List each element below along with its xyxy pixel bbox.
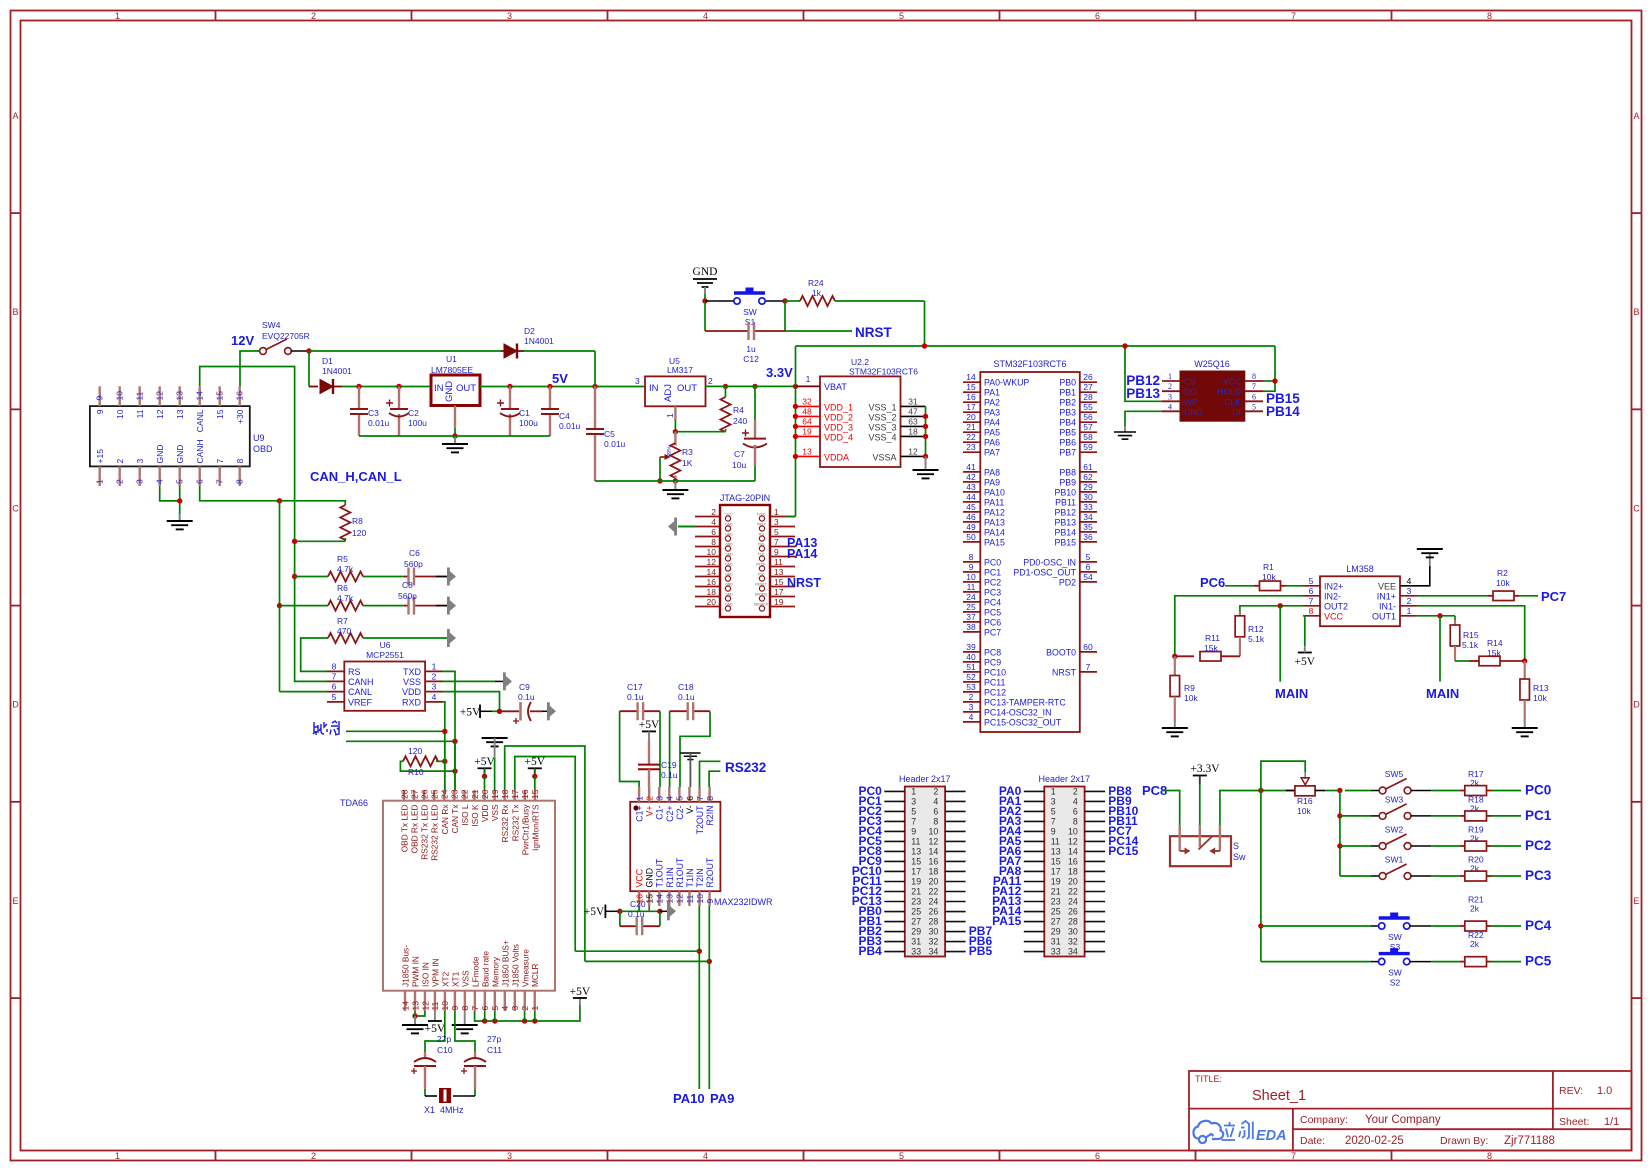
svg-text:2: 2	[969, 692, 974, 702]
svg-text:SW: SW	[743, 307, 757, 317]
svg-text:OBD: OBD	[253, 444, 273, 454]
svg-text:+5V: +5V	[570, 986, 591, 998]
net port (C9)	[547, 702, 556, 720]
junction C7 top	[752, 384, 757, 389]
junction OUT1/MAIN	[1437, 613, 1442, 618]
svg-text:21: 21	[911, 887, 921, 897]
svg-text:ISO IN: ISO IN	[420, 962, 430, 987]
resistor R11 15k	[1175, 655, 1194, 657]
wire OUT1	[1417, 615, 1455, 617]
svg-text:27p: 27p	[487, 1034, 501, 1044]
wire pin23 CAN Tx riser	[454, 741, 456, 790]
svg-text:PD2: PD2	[1059, 577, 1076, 587]
svg-text:XT2: XT2	[440, 971, 450, 987]
junction R6 tap	[277, 603, 282, 608]
svg-text:0.1u: 0.1u	[627, 692, 644, 702]
svg-text:PC15: PC15	[1108, 844, 1138, 858]
svg-text:8: 8	[332, 661, 337, 671]
svg-text:A: A	[12, 111, 18, 121]
svg-text:LM7805EE: LM7805EE	[431, 365, 473, 375]
TDA66 top pins	[399, 789, 540, 860]
junction R11/R9	[1172, 654, 1177, 659]
svg-text:U9: U9	[253, 433, 265, 443]
capacitor C19 0.1u	[648, 741, 650, 765]
svg-text:24: 24	[1068, 897, 1078, 907]
wire 3.3V top rail	[796, 345, 1276, 347]
svg-text:R24: R24	[808, 278, 824, 288]
svg-text:PA15: PA15	[984, 537, 1005, 547]
svg-text:12: 12	[929, 836, 939, 846]
svg-text:39%: 39%	[667, 446, 673, 457]
capacitor C20 0.1u	[619, 911, 621, 926]
svg-text:16: 16	[235, 391, 245, 401]
svg-text:R10: R10	[408, 767, 424, 777]
svg-text:26: 26	[1068, 907, 1078, 917]
svg-text:17: 17	[510, 789, 520, 799]
wire GND pin15 down	[648, 906, 650, 911]
net port (MCP VSS)	[503, 672, 512, 690]
svg-text:RXD: RXD	[402, 697, 422, 707]
svg-text:RS232 Tx LED: RS232 Tx LED	[420, 804, 430, 859]
svg-text:T1OUT: T1OUT	[655, 858, 665, 887]
ground (TDA VSS pin19)	[482, 738, 508, 746]
svg-text:Your Company: Your Company	[1365, 1114, 1441, 1126]
svg-text:DBGRQ: DBGRQ	[755, 593, 768, 597]
resistor R13 10k	[1524, 661, 1526, 679]
svg-text:C7: C7	[734, 449, 745, 459]
junction R2OUT	[707, 959, 712, 964]
title block	[1189, 1071, 1632, 1151]
svg-text:22: 22	[966, 432, 976, 442]
svg-text:PA9: PA9	[710, 1091, 734, 1106]
wire D1 to U1 IN	[342, 386, 431, 388]
svg-text:PB12: PB12	[1054, 507, 1076, 517]
svg-text:36: 36	[1083, 532, 1093, 542]
svg-text:28: 28	[399, 789, 409, 799]
svg-text:VCC: VCC	[725, 513, 733, 517]
svg-text:C2: C2	[408, 408, 419, 418]
svg-text:27: 27	[409, 789, 419, 799]
svg-text:PC4: PC4	[1525, 918, 1552, 933]
svg-text:JTAG-20PIN: JTAG-20PIN	[720, 493, 770, 503]
svg-text:5: 5	[899, 1151, 904, 1161]
svg-text:8: 8	[1309, 606, 1314, 616]
svg-text:29: 29	[911, 927, 921, 937]
capacitor C11 27p	[474, 1052, 476, 1057]
svg-text:+15: +15	[95, 449, 105, 464]
svg-text:D: D	[12, 700, 19, 710]
svg-text:WP: WP	[1184, 397, 1198, 407]
svg-text:Memory: Memory	[490, 956, 500, 987]
svg-text:3: 3	[655, 796, 665, 801]
switch SW2	[1340, 845, 1371, 847]
svg-text:D: D	[1633, 700, 1640, 710]
svg-text:5.1k: 5.1k	[1462, 640, 1479, 650]
svg-text:470: 470	[337, 626, 351, 636]
svg-text:TCK: TCK	[758, 553, 766, 557]
svg-text:12: 12	[707, 557, 717, 567]
switch SW4	[260, 348, 267, 355]
svg-text:X1: X1	[424, 1105, 435, 1115]
svg-text:HOLD: HOLD	[1217, 387, 1241, 397]
wire D2 down to 5V rail	[594, 351, 596, 387]
svg-text:5: 5	[1252, 402, 1256, 411]
svg-text:22: 22	[929, 887, 939, 897]
wire TDA pin18 RS232Rx	[505, 746, 585, 961]
svg-text:14: 14	[400, 1001, 410, 1011]
junction C3 top	[356, 384, 361, 389]
svg-text:6: 6	[711, 527, 716, 537]
svg-text:9: 9	[95, 409, 105, 414]
svg-text:1u: 1u	[746, 344, 756, 354]
wire U5 OUT to VBAT rail	[706, 385, 796, 387]
svg-text:R14: R14	[1487, 638, 1503, 648]
svg-text:Company:: Company:	[1300, 1114, 1348, 1126]
svg-text:SW: SW	[1388, 968, 1402, 978]
ic U? MAX232IDWR	[630, 802, 720, 891]
svg-text:8: 8	[969, 552, 974, 562]
svg-text:8: 8	[711, 537, 716, 547]
svg-text:PC5: PC5	[1525, 954, 1552, 969]
svg-text:4: 4	[155, 479, 165, 484]
svg-text:20: 20	[707, 597, 717, 607]
svg-text:4: 4	[1168, 402, 1172, 411]
capacitor C12 1u	[705, 330, 749, 332]
svg-text:12: 12	[675, 894, 685, 904]
svg-text:R2IN: R2IN	[705, 806, 715, 826]
junction C20 left	[617, 909, 622, 914]
junction switch bus top	[1337, 788, 1342, 793]
svg-text:PC9: PC9	[984, 657, 1001, 667]
svg-text:+5V: +5V	[460, 707, 481, 719]
svg-text:BOOT0: BOOT0	[1046, 647, 1076, 657]
svg-text:VSS_3: VSS_3	[868, 422, 896, 432]
resistor R12 5.1k	[1239, 611, 1241, 616]
svg-text:28: 28	[1083, 392, 1093, 402]
svg-text:R1OUT: R1OUT	[675, 857, 685, 887]
svg-text:C2+: C2+	[665, 806, 675, 822]
svg-text:40: 40	[966, 652, 976, 662]
wire 12V down to D1	[308, 351, 310, 387]
svg-text:5: 5	[774, 527, 779, 537]
svg-text:5V: 5V	[552, 371, 568, 386]
svg-text:3: 3	[507, 1151, 512, 1161]
svg-text:PC6: PC6	[984, 617, 1001, 627]
svg-text:PD1-OSC_OUT: PD1-OSC_OUT	[1013, 567, 1076, 577]
EasyEDA logo	[1194, 1121, 1224, 1143]
svg-text:2: 2	[311, 11, 316, 21]
svg-text:S: S	[1233, 841, 1239, 851]
wire 12V to D2	[309, 350, 501, 352]
svg-text:5: 5	[911, 806, 916, 816]
wire bottom rail C5-C7	[595, 480, 755, 482]
svg-text:C3: C3	[368, 408, 379, 418]
svg-text:14: 14	[195, 391, 205, 401]
svg-text:2: 2	[1073, 786, 1078, 796]
svg-text:C9: C9	[519, 682, 530, 692]
resistor R22 2k	[1431, 961, 1460, 963]
svg-text:J1850 Bus-: J1850 Bus-	[401, 945, 411, 987]
junction W25 VCC	[1272, 378, 1277, 383]
junction R16 left	[1258, 788, 1263, 793]
wire T2IN vertical	[698, 906, 700, 1089]
wire OUT2	[1240, 606, 1303, 611]
ground (MAX232 V-)	[680, 753, 700, 760]
svg-text:E: E	[1633, 896, 1639, 906]
svg-text:IN2+: IN2+	[1324, 581, 1343, 591]
svg-text:PB13: PB13	[1126, 386, 1160, 401]
svg-text:GND: GND	[175, 445, 185, 464]
svg-text:33: 33	[1051, 947, 1061, 957]
svg-text:CANL: CANL	[348, 687, 372, 697]
svg-text:29: 29	[1051, 927, 1061, 937]
svg-text:PB3: PB3	[1059, 408, 1076, 418]
svg-text:C: C	[12, 503, 19, 513]
U2.2 pin VBAT	[796, 385, 821, 387]
svg-text:D2: D2	[524, 326, 535, 336]
svg-text:PB5: PB5	[969, 944, 993, 958]
svg-text:MAIN: MAIN	[1426, 686, 1459, 701]
svg-text:VDD_4: VDD_4	[824, 432, 853, 442]
wire +5V to VCC	[620, 910, 660, 912]
svg-text:4: 4	[703, 1151, 708, 1161]
svg-text:15: 15	[215, 409, 225, 419]
svg-text:9: 9	[969, 562, 974, 572]
svg-text:PC1: PC1	[984, 567, 1001, 577]
svg-text:10k: 10k	[1184, 693, 1198, 703]
svg-text:7: 7	[911, 816, 916, 826]
svg-text:GND: GND	[444, 381, 455, 402]
regulator U1 LM7805EE	[431, 375, 480, 406]
svg-text:R15: R15	[1463, 630, 1479, 640]
svg-text:34: 34	[1083, 512, 1093, 522]
svg-text:16: 16	[1068, 856, 1078, 866]
svg-text:RS232 Rx LED: RS232 Rx LED	[430, 804, 440, 860]
svg-text:C5: C5	[604, 429, 615, 439]
svg-text:PC12: PC12	[984, 687, 1006, 697]
svg-text:22: 22	[460, 789, 470, 799]
svg-text:CANL: CANL	[195, 409, 205, 432]
svg-text:SW3: SW3	[1385, 794, 1404, 804]
svg-text:TDA66: TDA66	[340, 798, 368, 808]
mcu U2.2 STM32F103RCT6 power unit	[820, 376, 901, 467]
svg-text:15k: 15k	[1204, 643, 1218, 653]
svg-text:2: 2	[311, 1151, 316, 1161]
svg-text:PA7: PA7	[984, 448, 1000, 458]
svg-text:2: 2	[933, 786, 938, 796]
junction jumper1	[442, 729, 447, 734]
ground (R3 rail)	[674, 481, 676, 490]
wire R2OUT vertical	[708, 906, 710, 1089]
svg-text:VDDA: VDDA	[824, 452, 849, 462]
svg-text:NRST: NRST	[787, 576, 821, 590]
svg-text:MCP2551: MCP2551	[366, 650, 404, 660]
svg-text:20: 20	[1068, 876, 1078, 886]
svg-text:GND: GND	[725, 553, 733, 557]
svg-text:10k: 10k	[1496, 578, 1510, 588]
svg-text:VDD_2: VDD_2	[824, 412, 853, 422]
svg-text:PC13-TAMPER-RTC: PC13-TAMPER-RTC	[984, 697, 1066, 707]
svg-text:1: 1	[806, 374, 811, 384]
svg-text:U6: U6	[380, 640, 391, 650]
svg-text:PA13: PA13	[984, 517, 1005, 527]
power flag +5V (TDA pin11)	[434, 1011, 436, 1021]
svg-text:2k: 2k	[1470, 778, 1480, 788]
svg-text:A: A	[1633, 111, 1639, 121]
svg-text:4: 4	[665, 796, 675, 801]
wire NRST stub	[785, 330, 852, 332]
potentiometer R16 10k	[1286, 790, 1295, 792]
svg-text:PC3: PC3	[1525, 868, 1552, 883]
junction 3.3V W25	[1122, 343, 1127, 348]
svg-text:SW1: SW1	[1385, 855, 1404, 865]
svg-text:PwrCtr1/Busy: PwrCtr1/Busy	[520, 804, 530, 856]
svg-text:6: 6	[1086, 562, 1091, 572]
svg-text:R3: R3	[682, 447, 693, 457]
svg-text:PA0-WKUP: PA0-WKUP	[984, 378, 1029, 388]
svg-text:PA5: PA5	[984, 428, 1000, 438]
svg-text:13: 13	[802, 446, 812, 456]
junction jumper2	[452, 739, 457, 744]
wire JTAG pin1 to 3.3V	[785, 516, 796, 518]
svg-text:PC6: PC6	[1200, 575, 1225, 590]
svg-text:51: 51	[966, 662, 976, 672]
junction S1 right	[782, 298, 787, 303]
svg-text:C8: C8	[402, 580, 413, 590]
svg-text:8: 8	[1487, 1151, 1492, 1161]
svg-text:63: 63	[908, 416, 918, 426]
svg-text:47: 47	[908, 406, 918, 416]
svg-text:62: 62	[1083, 472, 1093, 482]
switch SW3	[1340, 815, 1371, 817]
svg-text:49: 49	[966, 522, 976, 532]
net port (JTAG pin4)	[668, 518, 677, 536]
svg-text:0.1u: 0.1u	[518, 692, 535, 702]
junction CANH branch	[277, 498, 282, 503]
svg-text:GND: GND	[725, 523, 733, 527]
wire XT1 to C11	[455, 1011, 475, 1052]
svg-text:3: 3	[1051, 796, 1056, 806]
svg-text:45: 45	[966, 502, 976, 512]
svg-text:11: 11	[135, 391, 145, 400]
svg-text:5: 5	[675, 796, 685, 801]
wire W25Q16 VCC	[1263, 346, 1275, 391]
svg-text:C1: C1	[519, 408, 530, 418]
svg-text:C18: C18	[678, 682, 694, 692]
svg-text:10k: 10k	[1533, 693, 1547, 703]
svg-text:26: 26	[929, 907, 939, 917]
svg-text:11: 11	[685, 894, 695, 903]
capacitor C17 0.1u	[620, 711, 640, 787]
svg-text:+5V: +5V	[639, 719, 660, 731]
connector U9 OBD body	[90, 406, 250, 466]
svg-text:PA14: PA14	[787, 547, 817, 561]
svg-text:VEE: VEE	[1378, 581, 1396, 591]
mcu STM32F103RCT6 GPIO unit	[980, 372, 1080, 732]
svg-text:19: 19	[1051, 876, 1061, 886]
resistor R1 10k	[1225, 585, 1254, 587]
resistor R8 120	[340, 505, 350, 540]
svg-text:MAIN: MAIN	[1275, 686, 1308, 701]
ground (U1)	[454, 436, 456, 444]
wire IN2- left	[1175, 596, 1303, 657]
svg-text:PC0: PC0	[984, 557, 1001, 567]
ground (TDA VSS pin8)	[464, 1011, 466, 1025]
svg-text:7: 7	[1086, 662, 1091, 672]
svg-text:C11: C11	[487, 1045, 502, 1055]
svg-text:26: 26	[1083, 372, 1093, 382]
svg-text:6: 6	[685, 796, 695, 801]
svg-text:27: 27	[1083, 382, 1093, 392]
wire TXD down	[443, 671, 456, 790]
svg-text:7: 7	[1309, 596, 1314, 606]
svg-text:20: 20	[929, 876, 939, 886]
svg-text:IN1+: IN1+	[1377, 591, 1396, 601]
junction R24/3.3V	[922, 343, 927, 348]
svg-text:TDO: TDO	[757, 573, 765, 577]
svg-text:1: 1	[774, 507, 779, 517]
svg-text:34: 34	[1068, 947, 1078, 957]
svg-text:0.1u: 0.1u	[628, 909, 645, 919]
svg-text:2020-02-25: 2020-02-25	[1345, 1135, 1404, 1147]
resistor R20 2k	[1431, 875, 1460, 877]
svg-text:B: B	[1633, 307, 1639, 317]
svg-text:14: 14	[707, 567, 717, 577]
resistor R17 2k	[1431, 790, 1460, 792]
svg-text:61: 61	[1083, 462, 1093, 472]
svg-text:RS232 Tx: RS232 Tx	[510, 804, 520, 842]
svg-text:PA1: PA1	[984, 388, 1000, 398]
svg-text:PC7: PC7	[984, 627, 1001, 637]
svg-text:7: 7	[215, 479, 225, 484]
svg-text:4.7k: 4.7k	[337, 593, 354, 603]
svg-text:5: 5	[332, 692, 337, 702]
svg-text:11: 11	[135, 409, 145, 418]
svg-text:C6: C6	[409, 548, 420, 558]
svg-text:R2: R2	[1497, 568, 1508, 578]
resistor R18 2k	[1431, 815, 1460, 817]
wire VSS bus	[925, 406, 927, 456]
svg-text:EVQ22705R: EVQ22705R	[262, 331, 310, 341]
svg-text:2: 2	[432, 671, 437, 681]
svg-text:R4: R4	[733, 405, 744, 415]
junction OUT2/MAIN	[1278, 603, 1283, 608]
svg-text:25: 25	[966, 602, 976, 612]
mcu TDA66	[383, 801, 555, 991]
svg-text:IgnMon/RTS: IgnMon/RTS	[530, 804, 540, 851]
svg-text:OBD Rx LED: OBD Rx LED	[410, 804, 420, 853]
svg-text:PB14: PB14	[1266, 404, 1300, 419]
svg-text:8: 8	[460, 1006, 470, 1011]
svg-text:1: 1	[665, 413, 675, 418]
svg-text:3: 3	[1407, 586, 1412, 596]
svg-text:8: 8	[235, 479, 245, 484]
junction C2 top	[396, 384, 401, 389]
svg-text:GND: GND	[725, 583, 733, 587]
svg-text:29: 29	[1083, 482, 1093, 492]
wire MAIN right vertical	[1439, 616, 1441, 682]
svg-text:REV:: REV:	[1559, 1085, 1583, 1097]
svg-text:1N4001: 1N4001	[322, 366, 352, 376]
svg-text:7: 7	[1252, 382, 1256, 391]
svg-text:16: 16	[520, 789, 530, 799]
connector Header 2x17 (P1)	[905, 787, 945, 957]
wire CANH from OBD pin6	[200, 486, 280, 501]
resistor R2 10k	[1417, 595, 1488, 597]
svg-text:0.01u: 0.01u	[604, 439, 626, 449]
svg-text:STM32F103RCT6: STM32F103RCT6	[993, 359, 1066, 369]
svg-text:6: 6	[1073, 806, 1078, 816]
